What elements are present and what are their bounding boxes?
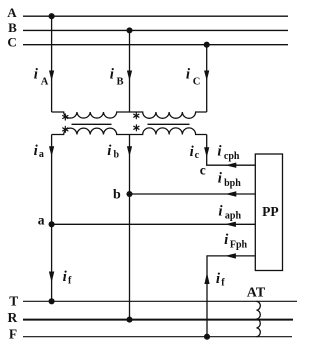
junction on bus R xyxy=(126,317,132,323)
svg-text:aph: aph xyxy=(225,211,242,222)
bus R xyxy=(23,319,293,321)
svg-text:c: c xyxy=(200,163,206,178)
svg-text:i: i xyxy=(218,203,223,219)
svg-text:b: b xyxy=(114,149,120,160)
svg-text:i: i xyxy=(110,67,115,83)
svg-text:B: B xyxy=(117,77,124,88)
arrow icph xyxy=(225,163,236,168)
arrow ibph xyxy=(225,191,236,196)
polarity mark TA2 primary xyxy=(134,113,139,119)
polarity mark TA1 secondary xyxy=(63,126,68,132)
arrow if left xyxy=(49,272,54,283)
svg-text:R: R xyxy=(8,310,18,325)
arrow iA xyxy=(49,71,54,81)
svg-text:b: b xyxy=(113,187,121,202)
svg-text:i: i xyxy=(186,67,191,83)
wire secondary a down to node a and bus T xyxy=(51,135,53,302)
wire secondary c down to node c xyxy=(207,135,255,166)
wire from bus B down to primary windings junction xyxy=(129,30,131,112)
svg-text:a: a xyxy=(39,149,44,160)
wire PP to bus F xyxy=(207,256,255,337)
svg-text:B: B xyxy=(8,20,17,35)
arrow ib xyxy=(127,146,132,156)
polarity mark TA1 primary xyxy=(63,114,68,120)
bus C xyxy=(23,44,288,46)
svg-text:Fph: Fph xyxy=(230,239,248,250)
arrow ia xyxy=(49,146,54,156)
arrow ic xyxy=(204,147,209,157)
arrow if right up xyxy=(204,273,209,285)
bus B xyxy=(23,29,288,31)
svg-text:f: f xyxy=(68,275,72,286)
arrow iFph xyxy=(225,253,236,258)
polarity mark TA2 secondary xyxy=(134,125,139,131)
arrow iaph xyxy=(225,222,236,227)
svg-text:C: C xyxy=(193,77,201,88)
transformer TA1 core xyxy=(72,123,112,125)
transformer TA1 primary winding xyxy=(52,112,130,118)
svg-text:i: i xyxy=(34,143,39,159)
svg-text:AT: AT xyxy=(247,286,266,301)
junction on bus F xyxy=(204,334,210,340)
svg-text:i: i xyxy=(224,232,229,248)
svg-text:i: i xyxy=(217,144,222,160)
bus F xyxy=(23,336,292,338)
wire from bus A down to primary winding xyxy=(51,16,53,112)
bus A xyxy=(23,15,288,17)
relay box PP xyxy=(255,154,282,271)
svg-text:i: i xyxy=(107,143,112,159)
svg-text:C: C xyxy=(7,34,16,49)
junction on bus B xyxy=(126,27,132,33)
transformer TA2 core xyxy=(148,123,190,125)
junction on bus A xyxy=(49,13,55,19)
junction on bus T xyxy=(49,298,55,304)
wire secondary b down to node b and bus R xyxy=(129,135,131,320)
svg-text:A: A xyxy=(7,5,17,20)
svg-text:c: c xyxy=(195,150,200,161)
arrow iC xyxy=(204,71,209,81)
svg-text:i: i xyxy=(218,171,223,187)
svg-text:cph: cph xyxy=(224,151,240,162)
svg-text:PP: PP xyxy=(262,204,279,219)
bus T xyxy=(23,300,297,302)
transformer TA2 primary winding xyxy=(130,112,207,118)
arrow iB xyxy=(127,71,132,81)
svg-text:f: f xyxy=(221,278,225,289)
svg-text:i: i xyxy=(63,269,68,285)
svg-text:i: i xyxy=(216,271,221,287)
svg-text:T: T xyxy=(9,294,18,309)
svg-text:F: F xyxy=(9,327,17,342)
junction on bus C xyxy=(204,42,210,48)
autotransformer AT winding xyxy=(257,301,261,336)
svg-text:i: i xyxy=(34,67,39,83)
svg-text:a: a xyxy=(38,213,45,228)
node b xyxy=(126,191,132,197)
wire node b to PP xyxy=(130,193,256,195)
wire node a to PP xyxy=(52,223,255,225)
svg-text:bph: bph xyxy=(224,178,241,189)
wire from bus C down to primary winding xyxy=(206,45,208,112)
svg-text:A: A xyxy=(41,77,49,88)
node a xyxy=(49,221,55,227)
transformer TA1 secondary winding xyxy=(52,128,130,134)
transformer TA2 secondary winding xyxy=(130,128,207,135)
